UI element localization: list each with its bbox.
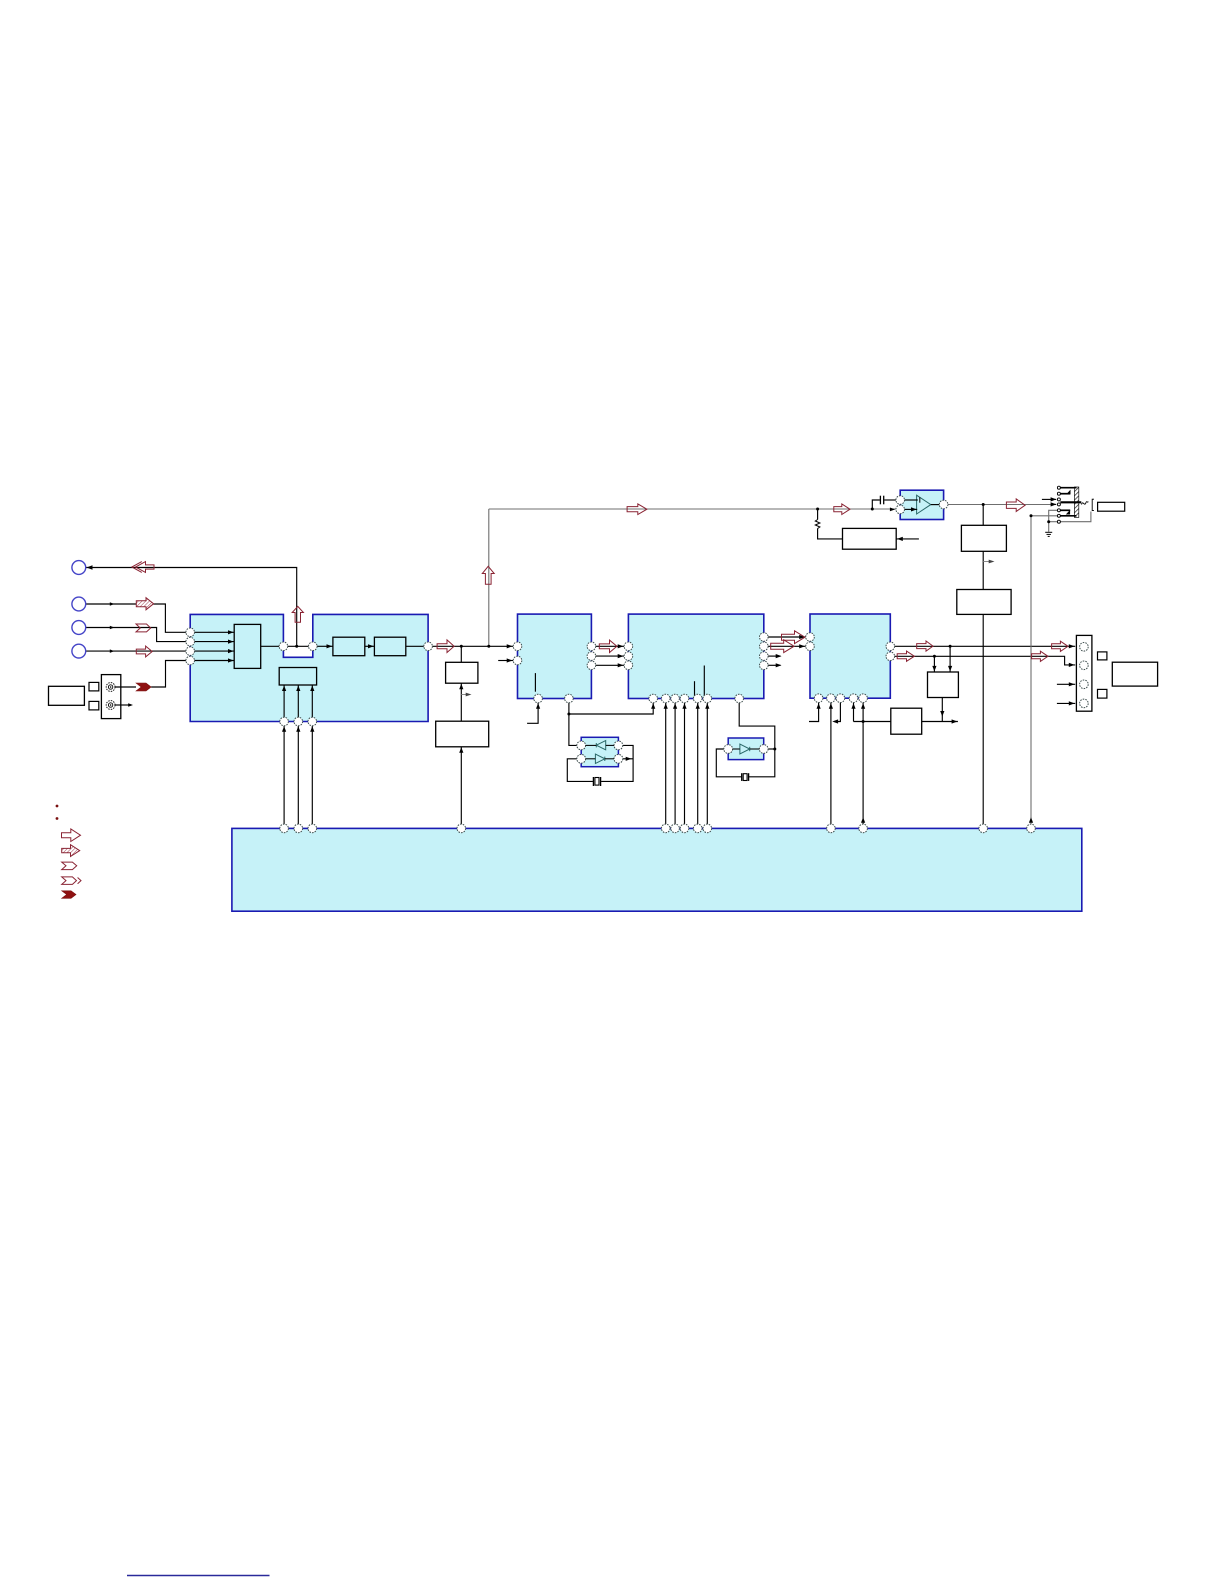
wire drop to box B xyxy=(460,646,462,662)
U2 left pins xyxy=(513,642,522,651)
jack wiper triangle T2 xyxy=(1066,510,1070,515)
wire U4 C3 L-stub xyxy=(835,703,841,722)
jack plug shaft xyxy=(1060,501,1081,503)
X1 pins xyxy=(577,741,586,750)
legend arrow 2 hatched xyxy=(62,845,80,857)
jack wiper triangle T1 xyxy=(1066,490,1070,495)
wire box R1 right stub xyxy=(896,538,919,540)
box F2 filter inside U1 xyxy=(374,637,405,656)
arrowhead X1 pin4 xyxy=(626,757,632,761)
arrowheads into IC1 xyxy=(228,630,234,634)
wire U3-U4 row1 xyxy=(768,636,806,638)
op-amp plus tick xyxy=(919,497,921,502)
ground symbol GND1 xyxy=(1045,532,1052,536)
box C regulator lower xyxy=(436,721,489,747)
node X2 right xyxy=(773,748,776,751)
legend arrow 1 open xyxy=(62,829,81,842)
bracket before AU box xyxy=(1092,499,1094,510)
square pad S3 xyxy=(1098,652,1107,660)
arrowheads into box E xyxy=(932,666,936,672)
wire RCA1 to arrow xyxy=(115,686,136,688)
box E level shifter right of U4 xyxy=(928,672,959,698)
arrowheads U2-U3 rows xyxy=(618,644,624,648)
box IC1 inside U1 xyxy=(234,624,261,668)
wire row1 drop to box E xyxy=(949,646,951,672)
block U3 DSP/decoder (third cyan) xyxy=(628,614,763,698)
jack tip squiggle xyxy=(1082,502,1089,505)
arrow after U4 row1 xyxy=(917,641,933,651)
node row1 tap xyxy=(949,645,952,648)
terminal T2 xyxy=(72,597,86,611)
U5 pins xyxy=(896,496,905,505)
arrow feedback line right xyxy=(834,504,850,515)
box D below U4 xyxy=(891,708,922,734)
arrow left-double-chevron on input1 line xyxy=(136,562,155,573)
wire long vertical jack to bus xyxy=(1030,516,1032,824)
U4 bottom pins xyxy=(814,694,823,703)
wire across notch xyxy=(288,645,309,647)
wire RCA2 stub xyxy=(115,704,131,706)
wire U3 internal stubs xyxy=(694,681,696,698)
box REC left of RCA jacks xyxy=(49,686,85,705)
arrow input4 (open) xyxy=(136,646,152,657)
node box B tap xyxy=(460,645,463,648)
wire PLL box verticals to bottom pins xyxy=(283,685,285,717)
arrow chevron-flag on input3 line xyxy=(136,624,151,632)
node resistor tap xyxy=(816,508,819,511)
wire jack pin3 stub xyxy=(1042,498,1056,500)
wire xtal link to U3 pin xyxy=(569,703,653,714)
wire jack pin5 to ground xyxy=(1049,510,1058,531)
bottom footer underline xyxy=(127,1575,270,1577)
wire U4 C4 down xyxy=(853,703,855,722)
arrowheads U3-U4 rows xyxy=(799,635,805,639)
RCA jack pin J1 xyxy=(106,683,115,692)
wire resistor branch down xyxy=(817,509,819,520)
wire U1 pin rows to IC1 xyxy=(195,631,235,633)
box AU out right of jack xyxy=(1098,502,1125,511)
U1 notch pins xyxy=(279,642,288,651)
crystal Y2 xyxy=(742,773,749,781)
wire U4 C5 to bus xyxy=(862,703,864,825)
arrow before CN2 pin2 (row2) xyxy=(1032,651,1048,661)
arrow feedback line left xyxy=(627,504,647,515)
node feedback riser tap xyxy=(487,645,490,648)
wire horizontal through box D xyxy=(854,721,891,723)
square pad S2 xyxy=(89,701,99,710)
wire U2 internal stub xyxy=(534,673,536,692)
power bus block (bottom cyan) xyxy=(232,828,1082,911)
wire box B to box C xyxy=(460,683,462,721)
wire U2 bottom pin1 dead end xyxy=(527,703,538,724)
legend dot 1 xyxy=(56,805,59,808)
wire IC1 out to notch pin xyxy=(261,645,279,647)
wire box A to box B2 xyxy=(982,551,984,589)
wire feedback top horizontal xyxy=(489,508,896,510)
box R1 resistor network (top feedback) xyxy=(843,528,897,549)
arrowheads mid input lines xyxy=(110,602,115,605)
wire U3 bottom pins to bus xyxy=(665,703,667,824)
node jack pin6 corner xyxy=(1030,514,1033,517)
wire notch to F1 xyxy=(317,645,333,647)
legend dot 2 xyxy=(56,817,59,820)
wire U4 row2 out jog to CN2 pin2 xyxy=(895,656,1076,665)
box PLL sub-box inside U1 xyxy=(279,668,316,686)
node C5 crossing xyxy=(862,720,865,723)
U4 right pins xyxy=(886,642,895,651)
wire row2 drop to box E xyxy=(933,656,935,672)
arrowhead box E down xyxy=(940,711,944,717)
wire U2 bottom pin2 down xyxy=(569,703,577,746)
box B tap tick (gray) xyxy=(461,694,468,696)
legend arrow 5 solid xyxy=(62,891,76,899)
arrowhead into input circle1 xyxy=(87,565,93,569)
block U1 tuner/front-end (left cyan with notch) xyxy=(190,614,428,721)
arrowhead opamp lower input xyxy=(911,507,917,511)
arrowhead into F1 xyxy=(327,644,333,648)
arrowhead box C to bus xyxy=(459,747,463,753)
wire opamp drop to box A xyxy=(982,505,984,526)
square pad S1 xyxy=(89,682,99,691)
arrow output line to jack xyxy=(1006,499,1025,512)
wire input2 xyxy=(86,604,186,632)
wire box E to horizontal xyxy=(941,698,943,722)
U3 right pins xyxy=(760,633,769,642)
U3 bottom pins xyxy=(649,694,658,703)
arrowheads below U1 bottom pins xyxy=(282,726,286,732)
wire X1 left pin2 to crystal xyxy=(567,759,593,782)
box B discriminator below main line xyxy=(446,662,478,683)
arrow solid maroon after RCA1 xyxy=(136,683,151,691)
square pad S4 xyxy=(1098,689,1107,698)
jack contact strip (hatched bar) xyxy=(1074,487,1078,517)
wire CN2 pin4 stub xyxy=(1057,702,1075,704)
node row2 tap xyxy=(933,655,936,658)
arrowhead main line into jack pin4 xyxy=(1051,502,1057,506)
wire U5 output inside xyxy=(931,504,940,506)
wire F2 to U1 right pin xyxy=(406,645,424,647)
CN2 pins xyxy=(1080,643,1089,652)
wire U4 C1 L-stub xyxy=(809,703,819,722)
jack pin5 contact line xyxy=(1060,509,1070,511)
bus pins xyxy=(280,824,289,833)
wire U4 C2 to bus xyxy=(830,703,832,825)
block U4 audio processor (fourth cyan) xyxy=(810,614,890,698)
RCA jack pin J2 xyxy=(106,701,115,710)
wire stub into U2 pin2 xyxy=(498,660,513,662)
wire X1 internal row2 xyxy=(586,758,596,760)
wire jack pin7 right up to bracket xyxy=(1060,512,1091,522)
node opamp output tap xyxy=(982,503,985,506)
mini block X2 oscillator (buffer) xyxy=(728,738,764,760)
arrowheads U3 bottom pins xyxy=(664,703,668,709)
arrowhead into box R1 (pointing left) xyxy=(897,537,903,541)
wire cap branch xyxy=(872,500,880,509)
arrowheads U4 bottom xyxy=(817,703,821,709)
wire U2-U3 row3 xyxy=(596,664,624,666)
inverter A1 in X1 (points left) xyxy=(596,741,605,750)
arrowhead into F2 xyxy=(368,644,374,648)
arrowhead before opamp pin2 xyxy=(890,508,895,512)
arrowhead horizontal end right xyxy=(952,719,958,723)
wire input3 xyxy=(86,628,186,642)
terminal T3 xyxy=(72,621,86,635)
U1 right pin xyxy=(424,642,433,651)
RCA jack connector body xyxy=(101,675,120,719)
arrowheads into CN2 pins xyxy=(1069,644,1075,648)
wire X1 right pins to crystal xyxy=(601,745,633,781)
wire U3 pin7 to X2 xyxy=(739,703,775,749)
wire X2 left pin to crystal xyxy=(716,749,741,777)
wire feedback vertical (riser) xyxy=(488,509,490,646)
wire box B2 to bus xyxy=(982,614,984,824)
arrow after U4 row2 xyxy=(897,651,914,661)
wire CN2 pin3 stub xyxy=(1057,683,1075,685)
arrow up in U1 notch xyxy=(292,606,303,622)
arrow U3 to U4 row1 (large) xyxy=(782,631,805,644)
wire input4 xyxy=(86,650,186,652)
arrowhead into U2 pin1 xyxy=(507,644,513,648)
box A mute stage xyxy=(961,525,1006,551)
arrowheads PLL box inputs xyxy=(282,686,286,692)
wire U2-U3 row2 xyxy=(596,655,624,657)
legend arrow 4 chevron flag + tick xyxy=(62,877,77,885)
arrowhead U2 bottom pin1 xyxy=(536,703,540,709)
U2 bottom pins xyxy=(534,694,543,703)
node notch junction xyxy=(295,645,298,648)
jack pin2 contact line xyxy=(1060,493,1070,495)
arrowhead RCA2 stub xyxy=(128,703,133,706)
resistor R2 zigzag xyxy=(815,520,820,529)
op-amp triangle in U5 xyxy=(917,495,931,514)
wire U4 row1 out to CN2 pin1 xyxy=(895,645,1076,647)
wire F1 to F2 xyxy=(365,645,375,647)
node xtal1 link xyxy=(567,713,570,716)
wire U1 bottom pins to bus xyxy=(283,726,285,824)
wire X1 internal row1 xyxy=(586,745,760,758)
U3 left pins xyxy=(624,642,633,651)
arrowhead box B to C xyxy=(459,684,463,690)
jack pin circles xyxy=(1057,486,1060,523)
arrow before CN2 pin1 xyxy=(1052,641,1068,651)
terminal T1 xyxy=(72,561,86,575)
wire X2 crystal right lead xyxy=(749,749,775,777)
wire jack pin7 left xyxy=(1049,521,1058,523)
box A to B2 tick arrow xyxy=(983,561,992,563)
wire cap to U5 pin1 xyxy=(884,499,896,501)
wire U2-U3 row1 xyxy=(596,645,624,647)
wire main row U1 to U2 xyxy=(432,645,513,647)
arrow after U1 xyxy=(437,640,454,653)
output connector CN2 body xyxy=(1076,635,1092,711)
wire input1 top line xyxy=(86,568,297,647)
U4 left pins xyxy=(806,633,815,642)
wire U3 row3 stub xyxy=(768,655,780,657)
X2 pins xyxy=(724,745,733,754)
wire U5 output line to jack xyxy=(948,504,1052,506)
mini block X1 oscillator (dual inverter) xyxy=(581,737,618,766)
arrow up on feedback riser xyxy=(482,566,494,584)
wire resistor to box R1 xyxy=(818,529,843,539)
jack pin6 contact line xyxy=(1060,515,1076,517)
wire RCA1 arrow to U1 pin4 xyxy=(151,661,186,688)
main output line segment near jack (black) xyxy=(1052,503,1057,505)
wire U3-U4 row2 xyxy=(768,645,806,647)
box speaker/load right of CN2 xyxy=(1112,662,1157,686)
box F1 filter inside U1 xyxy=(333,637,365,656)
arrowhead xtal link into U3 pin xyxy=(651,703,655,709)
block U2 IF (second cyan) xyxy=(518,614,592,698)
arrowhead into U2 pin2 xyxy=(507,658,513,662)
terminal T4 xyxy=(72,644,86,658)
crystal Y1 xyxy=(593,777,600,786)
wire X2 right pin to vertical xyxy=(768,748,775,750)
wire X2 internal xyxy=(733,748,740,750)
U1 left pins xyxy=(186,628,195,637)
wire U3 row4 stub xyxy=(768,664,780,666)
capacitor C1 plates xyxy=(879,496,881,505)
arrowhead pin3 stub xyxy=(1051,497,1057,501)
arrow U3 to U4 row2 (large) xyxy=(771,640,794,653)
legend arrow 3 chevron flag xyxy=(62,862,77,870)
box B2 amp stage xyxy=(957,590,1011,615)
mini block U5 op-amp xyxy=(900,490,943,519)
wire box C to bus xyxy=(460,747,462,824)
jack pin1 contact line xyxy=(1060,487,1076,489)
U1 bottom pins xyxy=(280,717,289,726)
arrow U2 to U3 xyxy=(599,640,617,652)
node capacitor tap xyxy=(871,508,874,511)
wire U5 input lines xyxy=(905,499,918,501)
arrow hatched on input2 line xyxy=(136,598,153,610)
buffer A3 in X2 (points right) xyxy=(740,744,750,754)
wire jack pin6 branch to long vertical xyxy=(1031,515,1058,517)
arrowhead C3 into C2 line xyxy=(832,719,838,723)
U2 right pins xyxy=(587,642,596,651)
arrowheads above bus pins xyxy=(861,817,865,823)
node ground crossing xyxy=(1047,520,1050,523)
inverter A2 in X1 (points right) xyxy=(595,754,604,763)
arrowheads U3 row3/4 stubs xyxy=(776,654,782,658)
